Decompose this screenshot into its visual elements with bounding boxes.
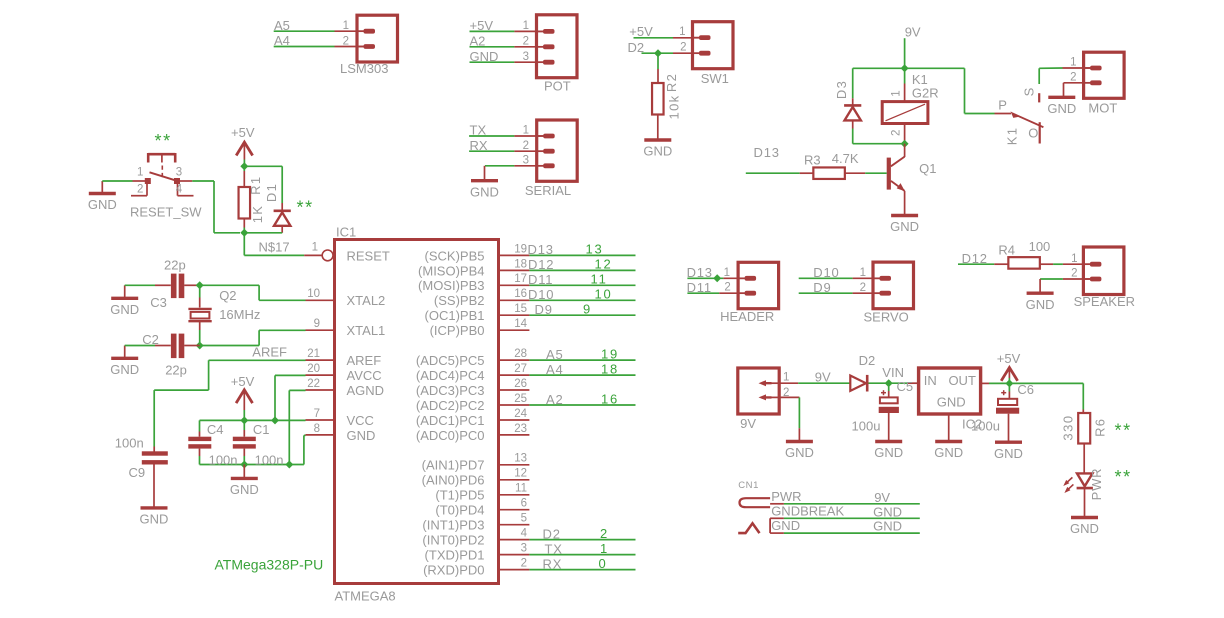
label GND (CN1 break) [873,504,902,519]
wire [1063,278,1090,280]
label MOT [1088,101,1117,116]
svg-text:2: 2 [680,41,686,53]
pin numbers (SW1) [679,26,686,53]
svg-text:25: 25 [514,393,527,405]
label 330 [1061,414,1076,440]
IC1 left pins [306,248,390,443]
pin numbers (SERVO) [860,267,866,294]
svg-text:13: 13 [514,453,527,465]
svg-text:GND: GND [140,512,169,527]
svg-text:10: 10 [595,287,613,302]
svg-text:22p: 22p [165,362,187,377]
junction [240,461,248,469]
resistor R3 [813,167,845,179]
svg-text:LSM303: LSM303 [340,61,388,76]
power jack CN1 sleeve [738,523,759,533]
ground (C1/C4) [230,465,259,498]
svg-text:1: 1 [783,372,789,384]
svg-text:GND: GND [771,518,800,533]
svg-text:**: ** [1115,467,1132,487]
ground (reset switch) [88,181,117,212]
label K1 (relay) [912,72,928,87]
label 10k [667,95,682,120]
svg-text:GND: GND [110,302,139,317]
label R1 [248,176,263,195]
wire [199,298,201,308]
svg-text:A2: A2 [470,33,486,48]
svg-text:POT: POT [544,78,571,93]
svg-text:**: ** [1115,420,1132,440]
svg-text:7: 7 [314,408,320,420]
wire [184,284,200,286]
label PWR (LED) [1089,468,1104,501]
wire [904,84,906,102]
svg-text:1: 1 [679,26,685,38]
label GND (CN1) [771,518,800,533]
svg-text:20: 20 [307,363,320,375]
resistor R1 [239,187,251,219]
ground (C6) [994,414,1023,461]
label ATMEGA8 [335,588,396,603]
wire [281,166,283,203]
svg-text:2: 2 [523,140,529,152]
pin numbers (MOT) [1070,57,1076,84]
wire D13 (HEADER) [687,277,745,279]
wire [852,120,854,128]
svg-text:AGND: AGND [347,383,385,398]
label C3 [150,295,167,310]
svg-text:D2: D2 [859,353,876,368]
label PWR (CN1) [771,489,801,504]
contact O (K1) [1039,122,1041,143]
wire [798,382,850,384]
label D11 (HEADER) [687,280,712,295]
svg-text:1: 1 [1070,57,1076,69]
regulator IC2 body [919,368,981,414]
wire [288,390,290,464]
resistor R2 [652,83,664,115]
svg-text:GND: GND [347,428,376,443]
label Q2 [219,288,236,303]
label 9V (net) [815,370,831,385]
resistor R4 [1008,257,1040,269]
junction [240,162,248,170]
wire [244,254,304,256]
svg-text:R3: R3 [804,152,821,167]
wire [199,432,201,437]
crystal Q2 [188,309,211,321]
svg-text:100u: 100u [852,418,881,433]
svg-text:RESET_SW: RESET_SW [130,205,202,220]
label +5V (POT) [470,18,494,33]
capacitor C6 [996,390,1019,414]
svg-text:13: 13 [586,242,604,257]
svg-text:11: 11 [591,272,608,287]
junction VIN [885,379,893,387]
svg-text:18: 18 [514,258,527,270]
svg-text:9V: 9V [905,24,921,39]
svg-text:2: 2 [1070,71,1076,83]
svg-text:XTAL2: XTAL2 [347,293,386,308]
connector SPEAKER [1083,247,1124,295]
label TX [470,123,487,138]
power +5V (out) [997,351,1021,383]
label 9V (CN1) [874,490,890,505]
svg-text:C1: C1 [253,422,270,437]
svg-text:C4: C4 [207,422,224,437]
svg-text:2: 2 [343,35,349,47]
label SERIAL [525,183,571,198]
wire [907,382,919,384]
svg-text:XTAL1: XTAL1 [347,323,386,338]
svg-text:1: 1 [137,166,143,178]
svg-text:4: 4 [521,528,528,540]
wire [281,203,283,211]
wire [243,420,245,436]
wire [275,374,306,376]
pin numbers (SPEAKER) [1071,253,1077,280]
label C4 [207,422,224,437]
svg-text:16MHz: 16MHz [219,307,260,322]
svg-text:GND: GND [937,395,966,410]
wire TX [469,135,543,137]
label +5V (SW1) [629,24,653,39]
power jack CN1 break contact [769,518,771,533]
label G2R [912,86,939,101]
svg-text:SPEAKER: SPEAKER [1074,294,1135,309]
label 4.7K [832,151,859,166]
svg-text:R6: R6 [1093,418,1108,437]
wire [303,435,305,464]
connector POT [536,15,577,78]
svg-text:AREF: AREF [347,353,382,368]
wire [213,181,215,233]
label ATMega328P-PU [215,556,324,572]
ground (SPEAKER) [1026,279,1055,312]
svg-text:(T0)PD4: (T0)PD4 [435,503,484,518]
wire [258,330,260,345]
label IC2 [962,417,982,432]
wire [199,321,201,330]
svg-text:S: S [1021,87,1036,96]
wire RX [469,150,543,152]
junction [713,274,721,282]
label D2 (SW1) [628,40,645,55]
svg-text:(RXD)PD0: (RXD)PD0 [423,563,484,578]
pin numbers (POT) [523,20,529,63]
svg-text:Q1: Q1 [919,161,936,176]
wire GND (POT) [470,61,544,63]
wire [281,226,283,233]
svg-text:D10: D10 [813,265,839,280]
svg-text:1K: 1K [250,205,265,224]
capacitor C1 [233,437,256,449]
pin labels 1 2 3 4 (RESET_SW) [137,166,183,195]
wire [904,68,906,83]
svg-text:1: 1 [312,242,318,254]
connector MOT [1083,52,1124,98]
svg-text:A5: A5 [546,347,564,362]
wire [1039,67,1090,69]
svg-text:RESET: RESET [347,248,390,263]
svg-text:SW1: SW1 [701,71,729,86]
label LSM303 [340,61,388,76]
svg-text:2: 2 [521,558,527,570]
svg-text:100n: 100n [209,453,238,468]
svg-text:O: O [1028,126,1038,141]
svg-text:100n: 100n [115,435,144,450]
op-amp IC1 ATMEGA8 body [335,240,499,584]
svg-text:23: 23 [514,423,527,435]
wire [274,375,276,420]
wire GNDBREAK (CN1) [770,517,920,519]
svg-text:1: 1 [600,541,609,556]
pin label 1 (K1) [891,90,903,96]
capacitor C4 [188,437,211,449]
wire [989,382,1009,384]
svg-text:IC1: IC1 [336,224,356,239]
svg-text:GND: GND [890,219,919,234]
svg-text:(ADC0)PC0: (ADC0)PC0 [416,428,485,443]
svg-text:+5V: +5V [470,18,494,33]
wire [1064,82,1091,84]
svg-text:GND: GND [873,519,902,534]
svg-text:2: 2 [891,130,903,136]
wire [243,219,245,233]
label C1 [253,422,270,437]
svg-text:26: 26 [514,378,527,390]
wire [746,172,800,174]
svg-text:GND: GND [785,445,814,460]
wire [192,180,214,182]
svg-text:GND: GND [934,445,963,460]
wire [657,53,659,69]
label D3 [834,80,849,99]
wire [153,390,155,446]
wire +5V (POT) [470,30,544,32]
svg-text:12: 12 [595,257,613,272]
svg-text:(SS)PB2: (SS)PB2 [434,293,485,308]
label GNDBREAK [771,503,844,518]
label AREF [252,344,287,359]
svg-text:28: 28 [514,348,527,360]
svg-text:GND: GND [643,144,672,159]
svg-text:100u: 100u [971,418,1000,433]
label GND (CN1 right) [873,519,902,534]
transistor Q1 [887,157,905,192]
svg-text:D9: D9 [813,280,831,295]
svg-text:GND: GND [230,482,259,497]
svg-text:(ADC3)PC3: (ADC3)PC3 [416,383,485,398]
wire [779,396,799,398]
svg-text:P: P [998,98,1007,113]
wire [964,68,966,113]
label 16MHz [219,307,260,322]
label A4 [274,33,290,48]
wire [1040,278,1063,280]
label GND (POT) [470,49,499,64]
wire [994,263,1008,265]
wire A4 [274,46,364,48]
svg-text:+5V: +5V [629,24,653,39]
label ** (R6) [1115,420,1132,440]
connector LSM303 [357,15,398,62]
wire AREF [209,359,306,361]
label D13 (R3) [754,145,780,160]
svg-text:22: 22 [307,378,320,390]
svg-text:GND: GND [1047,101,1076,116]
label CN1 [738,480,759,491]
switch K1 blade [1011,111,1044,127]
label 100u (C5) [852,418,881,433]
svg-text:1: 1 [523,125,529,137]
svg-text:(TXD)PD1: (TXD)PD1 [425,548,485,563]
svg-text:D2: D2 [628,40,645,55]
svg-text:ATMEGA8: ATMEGA8 [335,588,396,603]
wire [1009,382,1083,384]
label 100 (R4) [1029,239,1051,254]
svg-text:9: 9 [314,318,320,330]
wire [208,360,210,390]
junction [901,64,909,72]
svg-text:GND: GND [1070,521,1099,536]
label 22p (C2) [165,362,187,377]
svg-text:100n: 100n [255,453,284,468]
svg-text:C2: C2 [142,332,159,347]
svg-text:GND: GND [873,504,902,519]
label RESET_SW [130,205,202,220]
svg-text:24: 24 [514,408,527,420]
label ** (D1) [297,197,314,217]
svg-text:D12: D12 [528,257,554,272]
svg-text:VIN: VIN [882,365,904,380]
svg-text:Q2: Q2 [219,288,236,303]
svg-text:GND: GND [88,197,117,212]
label A2 (POT) [470,33,486,48]
svg-text:GND: GND [470,184,499,199]
ground (9V pin2) [785,428,814,460]
wire [155,284,171,286]
LED PWR [1063,473,1093,493]
relay K1 coil [882,102,928,124]
wire D2 (SW1) [642,52,700,54]
label ** (RESET_SW) [155,131,172,151]
wire [995,113,1012,115]
svg-text:C5: C5 [897,379,914,394]
label HEADER [720,309,774,324]
svg-text:C3: C3 [150,295,167,310]
svg-text:(AIN1)PD7: (AIN1)PD7 [422,458,485,473]
label C6 [1017,382,1034,397]
wire (SERIAL pin3) [485,165,544,167]
wire [853,143,905,145]
svg-text:+5V: +5V [997,351,1021,366]
diode D3 [844,105,861,120]
wire [243,449,245,465]
wire [304,254,322,256]
wire [184,345,200,347]
svg-text:(AIN0)PD6: (AIN0)PD6 [422,473,485,488]
ground (C9) [140,464,169,526]
wire A2 (POT) [470,46,544,48]
svg-text:GNDBREAK: GNDBREAK [771,503,844,518]
svg-text:MOT: MOT [1088,101,1117,116]
wire [1083,444,1085,473]
connector SERVO [873,262,914,309]
resistor R6 [1078,413,1090,444]
capacitor C5 [879,390,899,413]
svg-text:D10: D10 [528,287,554,302]
pin numbers (LSM303) [343,20,349,47]
svg-text:**: ** [155,131,172,151]
ground (Q1) [890,191,919,234]
wire [199,330,201,346]
wire [865,172,887,174]
svg-text:100: 100 [1029,239,1051,254]
wire [289,389,305,391]
wire [199,449,201,465]
svg-text:27: 27 [514,363,527,375]
wire [798,397,800,428]
svg-text:GND: GND [994,446,1023,461]
label 9V (battery) [740,416,756,431]
ground (SERIAL) [470,166,499,200]
svg-text:A4: A4 [546,362,564,377]
ground (R2) [643,115,672,159]
svg-text:VCC: VCC [347,413,374,428]
label IN [924,373,937,388]
svg-text:G2R: G2R [912,86,939,101]
wire [259,299,305,301]
svg-text:(ICP)PB0: (ICP)PB0 [430,323,485,338]
pin 1 bubble (RESET) [322,250,333,261]
svg-text:9V: 9V [874,490,890,505]
svg-text:A5: A5 [274,18,290,33]
ground (MOT) [1047,97,1076,116]
label O [1028,126,1038,141]
wire [200,284,259,286]
wire [852,129,854,144]
power +5V (VCC) [231,374,255,421]
svg-text:(OC1)PB1: (OC1)PB1 [425,308,485,323]
svg-text:(INT1)PD3: (INT1)PD3 [422,518,484,533]
wire [904,124,906,144]
label ** (LED) [1115,467,1132,487]
svg-text:TX: TX [545,541,563,556]
svg-text:19: 19 [601,346,619,361]
ground (C2) [110,346,139,377]
svg-text:330: 330 [1061,414,1076,440]
junction [901,140,909,148]
label D1 [264,183,279,202]
svg-text:9: 9 [583,302,592,317]
pin numbers (9V) [783,372,789,399]
junction [196,281,204,289]
contact S (K1) [1038,68,1040,102]
svg-text:D9: D9 [535,302,553,317]
wire [1082,410,1084,414]
wire [125,345,155,347]
wire [888,383,890,397]
diode D2 [850,375,867,392]
svg-text:3: 3 [523,51,529,63]
svg-text:21: 21 [307,348,320,360]
wire GND (CN1) [770,532,920,534]
label RX [470,138,488,153]
svg-text:8: 8 [314,423,320,435]
capacitor C3 [171,274,184,299]
junction [1005,379,1013,387]
